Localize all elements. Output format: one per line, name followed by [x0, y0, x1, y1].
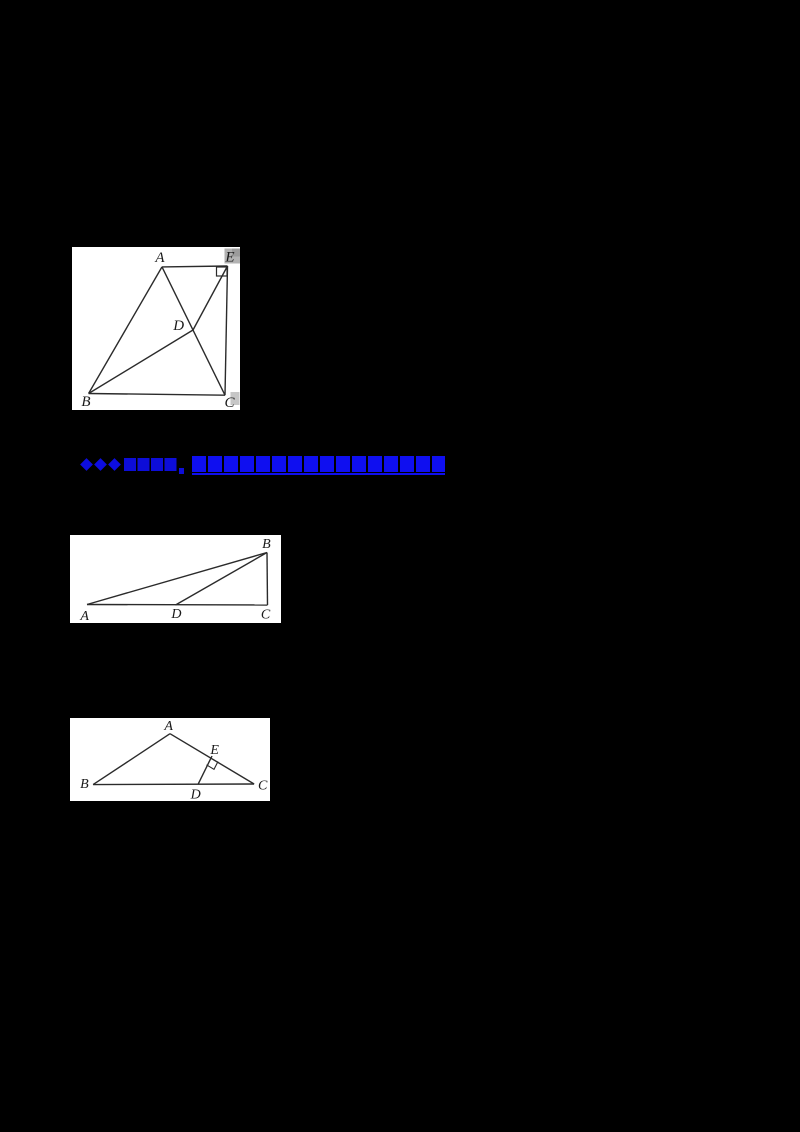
svg-text:C: C [261, 608, 271, 623]
panel background [70, 718, 270, 801]
svg-text:B: B [81, 394, 90, 410]
heading text blocks (simulated CJK glyphs) [124, 458, 178, 472]
svg-text:D: D [170, 607, 181, 622]
svg-text:B: B [80, 777, 89, 792]
svg-text:D: D [172, 318, 184, 334]
svg-text:C: C [224, 395, 235, 410]
wire segment BA [93, 734, 170, 785]
wire segment AC base through D [87, 604, 268, 607]
wire segment AE [162, 265, 228, 268]
wire segment BC base [93, 783, 254, 786]
heading line: blue diamonds + bold blue CJK-style heading text [0, 456, 470, 478]
wire segment BC vertical [266, 553, 269, 606]
wire segment AC [170, 734, 254, 784]
jpeg artifact gray patch near C [231, 392, 240, 405]
wire segment EC [225, 266, 228, 395]
wire segment BC [89, 394, 225, 396]
svg-text:D: D [190, 788, 201, 802]
svg-text:A: A [79, 609, 89, 623]
panel background [72, 247, 240, 410]
link text blocks (simulated CJK glyphs) [192, 456, 445, 472]
svg-text:A: A [163, 719, 173, 734]
wire segment DB [176, 553, 268, 606]
diamond bullet 3 [108, 458, 121, 471]
diamond bullet 2 [94, 458, 107, 471]
panel background [70, 535, 281, 623]
jpeg artifact gray patch near E [225, 249, 241, 264]
wire segment AB [89, 267, 162, 394]
wire segment AC through D [162, 267, 225, 395]
wire segment DE [198, 756, 212, 784]
link underline [192, 473, 445, 475]
wire segment AB [87, 553, 267, 605]
figure 2: right triangle ABC with cevian BD, white panel [70, 535, 281, 623]
svg-text:A: A [154, 250, 165, 266]
figure 1: quadrilateral ABCE with diagonals, white panel [72, 247, 240, 410]
svg-text:E: E [224, 250, 234, 266]
diamond bullet 1 [80, 458, 93, 471]
wire segment BD [89, 330, 193, 394]
right-angle mark at E [207, 762, 219, 770]
comma [179, 468, 184, 474]
wire segment DE [193, 266, 228, 330]
figure 3: triangle ABC with altitude DE, white panel [70, 718, 270, 801]
svg-text:E: E [209, 743, 219, 758]
svg-text:B: B [262, 537, 271, 552]
right-angle mark at E [217, 267, 228, 276]
svg-text:C: C [258, 779, 268, 794]
